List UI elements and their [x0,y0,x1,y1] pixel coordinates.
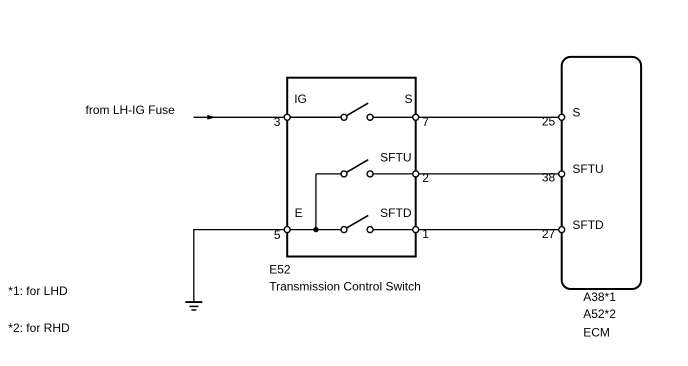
svg-text:S: S [404,92,412,106]
wire ground run from node E [194,230,287,303]
switch S2 pivot contact [341,171,347,177]
svg-text:*2: for RHD: *2: for RHD [8,321,70,335]
svg-text:*1: for LHD: *1: for LHD [8,284,68,298]
switch S3 fixed contact [367,227,373,233]
wire S row from contact to ECM pin 25 [370,116,562,118]
svg-text:2: 2 [422,171,429,185]
wire E row to SFTD switch [287,229,344,231]
svg-text:A52*2: A52*2 [583,307,616,321]
svg-text:SFTU: SFTU [380,151,411,165]
svg-text:SFTD: SFTD [380,206,412,220]
svg-text:3: 3 [274,115,281,129]
ground [185,302,202,310]
svg-text:from LH-IG Fuse: from LH-IG Fuse [86,103,176,117]
terminal pin 2 [413,171,419,177]
svg-text:27: 27 [542,227,556,241]
switch S3 pivot contact [341,227,347,233]
svg-text:7: 7 [422,115,429,129]
svg-text:E52: E52 [269,262,291,276]
transmission control switch box E52 [287,78,416,257]
svg-text:S: S [572,106,580,120]
switch S2 fixed contact [367,171,373,177]
svg-text:38: 38 [542,170,556,184]
node junction dot E branch [313,227,318,232]
terminal pin 3 [284,114,290,120]
switch S3 SFTD blade [346,215,368,228]
switch S1 IG-S blade [346,103,368,116]
ECM connector box [562,57,641,289]
wire SFTU from contact to ECM pin 38 [370,173,562,175]
terminal pin 5 [284,227,290,233]
terminal pin 1 [413,227,419,233]
svg-text:E: E [295,206,303,220]
terminal pin 25 [559,114,565,120]
svg-text:Transmission Control Switch: Transmission Control Switch [269,279,421,293]
wire SFTD from contact to ECM pin 27 [370,229,562,231]
terminal pin 27 [559,227,565,233]
svg-text:SFTD: SFTD [572,218,604,232]
wire IG row inside box to switch [287,116,344,118]
svg-text:5: 5 [274,228,281,242]
switch S2 SFTU blade [346,160,368,173]
svg-text:ECM: ECM [583,326,610,340]
switch S1 fixed contact [367,114,373,120]
terminal pin 38 [559,171,565,177]
svg-text:IG: IG [294,92,307,106]
wire from LH-IG fuse to pin 3 [194,116,345,118]
wire SFTU branch vertical [315,174,317,230]
svg-text:SFTU: SFTU [572,162,603,176]
svg-text:25: 25 [542,114,556,128]
arrowhead on fuse wire [207,115,216,120]
svg-text:1: 1 [422,227,429,241]
wire SFTU row to switch [316,173,344,175]
switch S1 pivot contact [341,114,347,120]
terminal pin 7 [413,114,419,120]
svg-text:A38*1: A38*1 [583,290,616,304]
